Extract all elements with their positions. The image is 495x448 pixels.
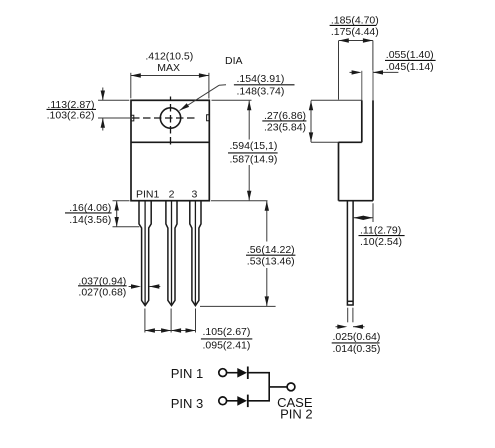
svg-text:PIN 3: PIN 3 xyxy=(171,396,204,411)
dimension DIA .154(3.91)/.148(3.74) with leader xyxy=(180,55,295,111)
svg-text:2: 2 xyxy=(169,189,175,201)
dimension .037(0.94)/.027(0.68) xyxy=(78,275,160,298)
terminal circle pin 1 xyxy=(219,369,227,377)
terminal circle pin 3 xyxy=(219,397,227,405)
side view right edge xyxy=(372,71,374,101)
wire pin1 to diode D1 xyxy=(227,372,238,374)
svg-text:.594(15,1): .594(15,1) xyxy=(230,140,278,152)
lead 3 outline xyxy=(190,201,201,306)
wire node to case terminal xyxy=(269,386,287,388)
svg-text:.16(4.06): .16(4.06) xyxy=(69,202,111,214)
side view body bottom edge xyxy=(339,200,374,202)
svg-text:.103(2.62): .103(2.62) xyxy=(47,109,95,121)
svg-text:.587(14.9): .587(14.9) xyxy=(230,153,278,165)
svg-text:PIN 2: PIN 2 xyxy=(280,407,313,422)
hole horizontal centerline xyxy=(132,117,196,119)
svg-text:MAX: MAX xyxy=(157,62,180,74)
lead 1 centerline xyxy=(144,201,146,304)
svg-text:.095(2.41): .095(2.41) xyxy=(203,339,251,351)
dimension .11(2.79)/.10(2.54) xyxy=(353,203,404,248)
diode D2 xyxy=(237,396,247,406)
mounting hole xyxy=(160,108,180,128)
svg-text:.055(1.40): .055(1.40) xyxy=(386,49,434,61)
dimension .055(1.40)/.045(1.14) xyxy=(350,49,436,75)
svg-text:.10(2.54): .10(2.54) xyxy=(360,236,402,248)
common node vertical wire xyxy=(268,373,270,401)
diode D1 xyxy=(237,368,247,378)
wire D2 to node xyxy=(249,400,271,402)
side view body left edge xyxy=(338,142,340,200)
svg-text:.412(10.5): .412(10.5) xyxy=(145,51,193,63)
left edge notch xyxy=(131,115,134,121)
svg-text:.23(5.84): .23(5.84) xyxy=(264,122,306,134)
svg-text:.027(0.68): .027(0.68) xyxy=(78,286,126,298)
front view tab separation line xyxy=(131,141,209,143)
dimension .105(2.67)/.095(2.41) xyxy=(145,309,252,352)
svg-text:.175(4.44): .175(4.44) xyxy=(331,26,379,38)
svg-text:.56(14.22): .56(14.22) xyxy=(247,244,295,256)
dimension .025(0.64)/.014(0.35) xyxy=(332,308,381,355)
side view lead end bar xyxy=(347,300,353,302)
lead 2 outline xyxy=(166,201,177,306)
dimension .56(14.22)/.53(13.46) xyxy=(200,201,295,306)
dimension .412(10.5) MAX xyxy=(131,51,209,99)
dimension .594(15,1)/.587(14.9) xyxy=(211,100,278,200)
front view body outline xyxy=(131,100,209,200)
lead 3 centerline xyxy=(194,201,196,304)
side view lead outline xyxy=(347,201,353,305)
lead 1 outline xyxy=(139,201,151,306)
svg-text:.53(13.46): .53(13.46) xyxy=(247,256,295,268)
svg-text:.11(2.79): .11(2.79) xyxy=(360,225,401,237)
hole vertical centerline xyxy=(170,97,172,147)
right edge notch xyxy=(207,115,210,121)
svg-text:.025(0.64): .025(0.64) xyxy=(333,331,381,343)
svg-text:PIN1: PIN1 xyxy=(136,189,160,201)
svg-text:.014(0.35): .014(0.35) xyxy=(333,343,381,355)
svg-text:.105(2.67): .105(2.67) xyxy=(203,326,251,338)
svg-text:.14(3.56): .14(3.56) xyxy=(69,214,111,226)
case terminal circle xyxy=(287,383,295,391)
svg-text:.154(3.91): .154(3.91) xyxy=(237,73,285,85)
pin number labels PIN1 2 3 xyxy=(136,189,197,201)
svg-text:.27(6.86): .27(6.86) xyxy=(264,110,306,122)
svg-text:3: 3 xyxy=(191,189,197,201)
dimension .27(6.86)/.23(5.84) xyxy=(262,100,362,142)
wire D1 to node xyxy=(249,372,271,374)
dimension .113(2.87)/.103(2.62) xyxy=(47,88,132,131)
lead 2 centerline xyxy=(171,201,173,304)
dimension .185(4.70)/.175(4.44) xyxy=(330,15,379,100)
side view tab left edge xyxy=(361,71,363,101)
dimension .16(4.06)/.14(3.56) xyxy=(65,201,139,227)
wire pin3 to diode D2 xyxy=(227,400,238,402)
svg-text:DIA: DIA xyxy=(225,55,243,67)
svg-text:.148(3.74): .148(3.74) xyxy=(237,85,285,97)
svg-text:.045(1.14): .045(1.14) xyxy=(386,61,434,73)
svg-text:PIN 1: PIN 1 xyxy=(171,366,204,381)
side view step edge xyxy=(339,141,362,143)
